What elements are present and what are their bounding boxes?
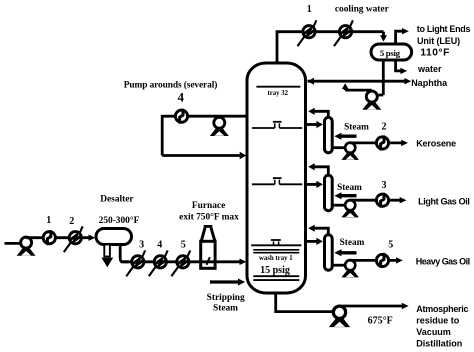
svg-text:Distillation: Distillation [416,338,462,348]
naphtha pump discharge [345,89,372,92]
cooling water condenser [334,20,353,46]
svg-text:Desalter: Desalter [100,195,133,205]
svg-text:water: water [417,64,442,74]
heat exchanger 4 (crude/pump-around) [149,250,168,276]
to light ends line [396,31,403,43]
svg-text:2: 2 [69,216,74,227]
naphtha pump [362,91,381,110]
desalter outlet line [120,245,128,262]
svg-text:Naphtha: Naphtha [411,78,448,88]
pump-around draw line [162,115,246,118]
svg-text:Heavy Gas Oil: Heavy Gas Oil [416,256,470,266]
tray (lower mid) [252,183,275,185]
svg-text:wash tray 1: wash tray 1 [259,255,293,262]
svg-text:1: 1 [46,215,51,226]
pump-around exchanger 4 [175,110,187,122]
light gas oil stripper steam line [340,194,357,197]
kerosene stripper draw line [307,123,317,126]
svg-text:4: 4 [178,90,185,105]
heavy gas oil stripper side stripper [325,235,333,270]
svg-text:to Light Ends: to Light Ends [417,24,471,34]
overhead vapour line [277,32,384,64]
light gas oil stripper draw line [307,183,317,186]
furnace coil mark [207,257,210,265]
kerosene stripper pump [341,143,358,160]
distillation column [247,63,306,293]
stripping steam arrow [238,279,245,286]
svg-text:Vacuum: Vacuum [416,327,451,337]
svg-text:cooling water: cooling water [335,5,389,15]
heavy gas oil stripper vapour return [315,228,329,235]
kerosene stripper product cooler [376,137,388,149]
wash tray double lines [253,249,299,251]
arrow into column (feed) [240,259,247,265]
svg-text:Kerosene: Kerosene [416,139,456,149]
kerosene stripper product line [350,141,403,144]
heavy gas oil stripper draw line [307,240,317,243]
heavy gas oil stripper product line [350,259,398,262]
svg-text:exit 750°F max: exit 750°F max [179,211,239,222]
light gas oil stripper pump [341,200,358,217]
svg-text:4: 4 [157,240,162,251]
feed preheat line [26,236,89,239]
furnace [201,241,215,268]
svg-text:Steam: Steam [337,183,362,193]
svg-text:110°F: 110°F [420,48,449,59]
kerosene stripper steam line [340,135,357,138]
svg-text:3: 3 [139,240,144,251]
light gas oil stripper vapour return [315,167,329,176]
heavy gas oil stripper steam line [340,251,357,254]
tray 32 line [256,86,300,88]
svg-text:Pump arounds (several): Pump arounds (several) [124,79,217,90]
heat exchanger 5 (crude/HGO) [171,250,190,276]
desalter vessel [96,229,132,245]
arrow into reflux drum [382,32,385,36]
light gas oil stripper bottoms line [333,204,347,207]
kerosene stripper vapour return [315,111,329,118]
svg-text:Light Gas Oil: Light Gas Oil [418,197,469,207]
overhead condenser 1 [298,20,317,46]
naphtha / reflux line [308,80,405,83]
light gas oil stripper product line [350,199,401,202]
residue pump [329,306,350,327]
water line [396,61,401,71]
svg-text:15 psig: 15 psig [260,265,290,276]
feed pump [17,237,36,256]
bottom double lines [253,275,299,277]
svg-text:Steam: Steam [344,123,369,133]
light gas oil stripper side stripper [325,175,333,210]
feed line [5,242,23,245]
heavy gas oil stripper product cooler [376,254,388,266]
heavy gas oil stripper pump [341,260,358,277]
heat exchanger 2 (crude/kerosene) [64,226,83,252]
preheat line to furnace [121,260,241,263]
residue line [340,305,403,308]
svg-text:tray 32: tray 32 [268,90,289,97]
kerosene stripper side stripper [325,117,333,152]
svg-text:Steam: Steam [340,238,365,248]
svg-text:Furnace: Furnace [192,201,225,211]
svg-text:Unit (LEU): Unit (LEU) [417,36,460,46]
stripping steam line [210,280,239,283]
svg-text:1: 1 [307,4,312,15]
svg-text:residue to: residue to [416,315,460,325]
arrow into desalter [89,235,96,241]
svg-text:Atmospheric: Atmospheric [416,304,468,314]
svg-text:5 psig: 5 psig [380,48,401,58]
pump-around left leg [161,115,164,156]
wash tray [251,244,301,246]
svg-text:250-300°F: 250-300°F [99,215,140,226]
pump-around pump [210,117,229,136]
drum outlet to pump [382,61,385,95]
kerosene stripper bottoms line [333,146,347,149]
svg-text:675°F: 675°F [368,316,393,327]
svg-text:2: 2 [382,122,387,133]
svg-text:5: 5 [181,240,186,251]
heat exchanger 1 (crude/overhead) [43,232,55,244]
heavy gas oil stripper bottoms line [333,264,347,267]
svg-text:Stripping: Stripping [207,293,245,303]
svg-text:3: 3 [382,180,387,191]
column bottoms line [276,293,334,312]
desalter water arrow [101,258,113,268]
reflux drum 5 psig [371,44,412,60]
pump-around return line [162,154,240,157]
heat exchanger 3 (crude/LGO) [126,250,145,276]
tray (upper mid) [252,127,275,129]
light gas oil stripper product cooler [376,194,388,206]
desalter water outlet nozzle [104,245,110,257]
svg-text:5: 5 [388,240,393,251]
svg-text:Steam: Steam [213,303,238,313]
